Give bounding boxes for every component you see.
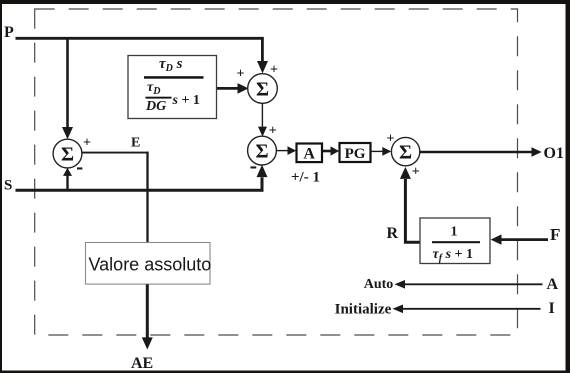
svg-text:F: F <box>550 225 560 244</box>
svg-text:Initialize: Initialize <box>335 302 392 318</box>
svg-text:s + 1: s + 1 <box>172 93 200 108</box>
sum junction U3 (derivative adder) <box>248 74 278 104</box>
wire R from filter block up to output sum <box>400 167 420 242</box>
sum junction U5 (output adder) <box>391 137 419 165</box>
block A (limiter) <box>297 144 323 163</box>
wire S <box>16 189 264 192</box>
svg-text:E: E <box>131 135 140 150</box>
svg-text:τf s + 1: τf s + 1 <box>433 247 474 264</box>
svg-text:Σ: Σ <box>256 78 269 100</box>
value label +/- 1 <box>291 170 320 186</box>
wire P drop into derivative sum <box>257 37 268 73</box>
svg-text:Valore assoluto: Valore assoluto <box>89 255 212 275</box>
node E label <box>131 135 140 150</box>
wire PG to output sum <box>371 147 391 156</box>
plus sign (error sum, top input) <box>83 135 91 150</box>
wire AE output <box>142 284 153 349</box>
svg-text:P: P <box>4 24 14 41</box>
wire F into filter block <box>491 234 548 244</box>
svg-text:I: I <box>549 300 555 317</box>
minus sign (PD sum, bottom input) <box>251 166 257 168</box>
svg-text:PG: PG <box>345 146 366 162</box>
svg-text:Σ: Σ <box>61 143 74 165</box>
wire P <box>16 37 264 40</box>
block PG (proportional gain) <box>340 143 371 162</box>
dashed block boundary <box>35 9 518 335</box>
wire PD sum to block A <box>276 146 296 155</box>
svg-text:S: S <box>4 177 12 193</box>
label Auto <box>364 277 394 292</box>
wire derivative block to derivative sum <box>217 83 249 94</box>
svg-text:+: + <box>269 123 277 138</box>
sum junction U4 (PD adder) <box>248 136 277 165</box>
wire E down to absolute value block <box>146 152 148 243</box>
node A label <box>547 276 559 293</box>
wire S branch up to error sum <box>63 168 72 190</box>
svg-text:1: 1 <box>451 224 458 239</box>
wire output sum to O1 <box>420 147 542 156</box>
svg-text:+: + <box>83 135 91 150</box>
plus sign (output sum, left input) <box>387 132 395 147</box>
absolute value block (Valore assoluto) <box>86 243 212 285</box>
filter block 1/(tau_f s + 1) <box>420 218 490 264</box>
node R label <box>387 225 399 242</box>
node O1 label <box>544 145 564 162</box>
plus sign (PD sum, top input) <box>269 123 277 138</box>
node P label <box>4 24 14 41</box>
node I label <box>549 300 555 317</box>
derivative block tau_D s / (tau_D/DG s + 1) <box>128 56 217 119</box>
wire S corner up to PD sum <box>257 165 268 192</box>
sum junction U2 (error subtractor) <box>53 139 82 168</box>
svg-text:R: R <box>387 225 399 242</box>
node F label <box>550 225 560 244</box>
svg-text:+/- 1: +/- 1 <box>291 170 320 186</box>
plus sign (derivative sum, top input) <box>270 63 278 78</box>
wire derivative sum to PD sum <box>258 103 267 137</box>
svg-text:+: + <box>270 63 278 78</box>
wire E from error sum <box>82 152 149 154</box>
svg-text:A: A <box>547 276 559 293</box>
minus sign (error sum, bottom input) <box>77 167 82 169</box>
wire Auto input <box>395 280 543 289</box>
plus sign (output sum, bottom input) <box>412 165 420 180</box>
svg-text:Auto: Auto <box>364 277 394 292</box>
svg-text:DG: DG <box>145 99 166 114</box>
svg-text:+: + <box>412 165 420 180</box>
wire P branch down to error sum <box>62 37 73 139</box>
svg-text:Σ: Σ <box>255 140 268 162</box>
svg-text:Σ: Σ <box>399 141 412 163</box>
label Initialize <box>335 302 392 318</box>
svg-text:+: + <box>237 67 245 82</box>
node S label <box>4 177 12 193</box>
wire A to PG <box>323 146 340 155</box>
svg-text:O1: O1 <box>544 145 564 162</box>
svg-text:A: A <box>303 146 315 163</box>
plus sign (derivative sum, left input) <box>237 67 245 82</box>
svg-text:AE: AE <box>131 355 153 372</box>
node AE label <box>131 355 153 372</box>
wire Initialize input <box>393 305 541 314</box>
